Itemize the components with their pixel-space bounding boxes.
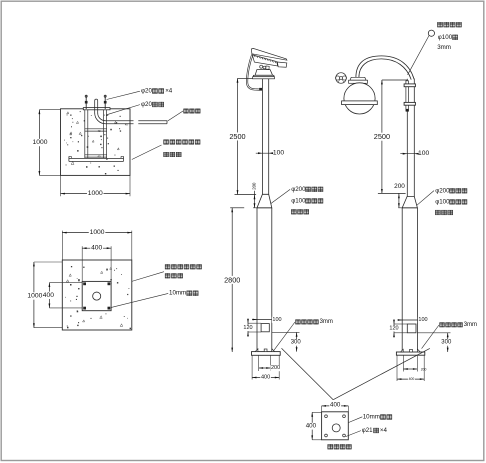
svg-text:200: 200 <box>271 365 280 371</box>
svg-text:φ20: φ20 <box>141 101 152 108</box>
svg-text:3mm: 3mm <box>320 319 333 325</box>
svg-text:400: 400 <box>330 401 341 408</box>
svg-text:φ200: φ200 <box>291 186 306 193</box>
svg-text:100: 100 <box>418 150 429 157</box>
svg-text:φ100: φ100 <box>291 197 306 204</box>
svg-text:120: 120 <box>389 325 398 331</box>
svg-text:φ100: φ100 <box>438 34 453 41</box>
svg-text:120: 120 <box>243 325 252 331</box>
svg-text:300: 300 <box>441 339 452 345</box>
svg-text:2800: 2800 <box>224 275 240 284</box>
svg-text:400: 400 <box>261 375 270 381</box>
svg-text:200: 200 <box>421 368 427 372</box>
svg-text:200: 200 <box>252 182 257 190</box>
svg-text:1000: 1000 <box>27 293 42 300</box>
svg-text:2500: 2500 <box>374 132 390 141</box>
svg-text:2500: 2500 <box>229 132 245 141</box>
svg-text:300: 300 <box>291 339 302 345</box>
svg-text:×4: ×4 <box>165 88 173 95</box>
svg-text:φ200: φ200 <box>435 187 450 194</box>
svg-text:100: 100 <box>418 317 427 323</box>
svg-text:1000: 1000 <box>90 229 105 236</box>
svg-text:10mm: 10mm <box>169 290 186 297</box>
svg-text:3mm: 3mm <box>464 322 477 328</box>
svg-text:400: 400 <box>43 292 54 299</box>
svg-text:φ100: φ100 <box>435 198 450 205</box>
svg-text:φ20: φ20 <box>141 88 152 95</box>
svg-text:200: 200 <box>394 183 405 190</box>
svg-text:100: 100 <box>272 317 281 323</box>
svg-text:3mm: 3mm <box>437 44 451 51</box>
svg-text:100: 100 <box>273 150 284 157</box>
svg-text:10mm: 10mm <box>363 414 380 421</box>
svg-text:400: 400 <box>306 423 317 430</box>
svg-text:1000: 1000 <box>88 190 103 197</box>
svg-text:×4: ×4 <box>380 427 388 434</box>
svg-text:1000: 1000 <box>33 139 48 146</box>
svg-text:400: 400 <box>409 377 415 381</box>
svg-text:φ21: φ21 <box>362 427 373 434</box>
svg-text:400: 400 <box>91 245 102 252</box>
